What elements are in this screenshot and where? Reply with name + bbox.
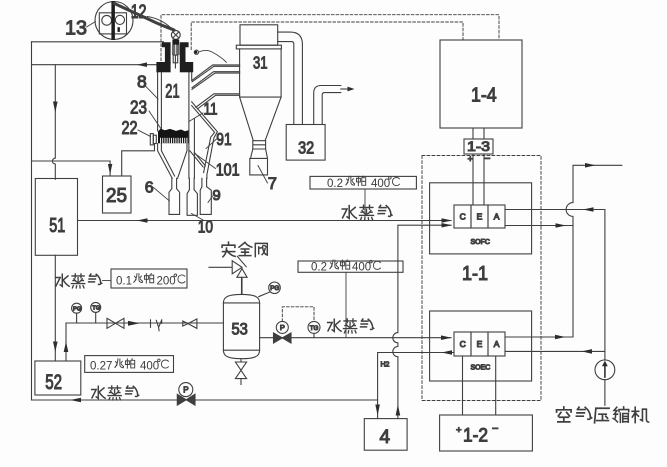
steam generator vessel 53 body [223, 294, 259, 358]
text air compressor [557, 407, 649, 423]
check valve before vessel 53 [183, 319, 197, 329]
svg-text:7: 7 [268, 175, 277, 193]
cyclone cone [240, 97, 282, 141]
wire 52 up to steam line y323 [66, 323, 223, 361]
svg-text:10: 10 [198, 216, 214, 236]
bus 1-3 to SOFC E [473, 154, 484, 205]
box 52 [35, 361, 81, 395]
SOEC cell E [471, 332, 488, 356]
svg-text:PG: PG [73, 306, 82, 312]
controller box 1-4 [440, 40, 522, 128]
gasifier left wall below bed [158, 144, 175, 179]
label 22 pointer [138, 130, 151, 137]
svg-text:53: 53 [232, 320, 248, 338]
burner nozzle 22 [150, 134, 153, 145]
svg-text:400: 400 [140, 361, 159, 373]
gauge P above control valve [276, 321, 288, 333]
power box 1-2 [440, 415, 533, 451]
svg-text:23: 23 [130, 97, 147, 118]
svg-text:H2: H2 [381, 362, 390, 369]
arrow right into SOFC C [442, 218, 453, 223]
bed comb texture [161, 138, 187, 143]
svg-text:25: 25 [106, 185, 127, 207]
wire syngas line y64.7 [32, 64, 158, 66]
svg-text:400: 400 [371, 178, 390, 190]
arrow right on top exhaust [585, 163, 596, 168]
svg-text:TG: TG [310, 325, 319, 332]
annular funnel 91 outer wall [192, 102, 218, 179]
svg-text:11: 11 [204, 101, 218, 119]
arrow left into SOFC A [583, 207, 594, 212]
label 23 pointer [149, 111, 162, 130]
exhaust arrow [341, 88, 348, 90]
cyclone 31 top box [240, 25, 278, 45]
arrow down into box 25 [108, 164, 112, 175]
lower duct to cyclone [196, 94, 240, 109]
wire H2 from SOEC C to storage 4 [378, 353, 454, 419]
gauge PG on 53 top [269, 282, 281, 294]
cyclone body [240, 49, 282, 97]
wire O2 riser with hop [566, 165, 622, 337]
char bottle 10 [187, 178, 197, 215]
arrow left toward 51 [137, 218, 148, 223]
flow arrow right after valve V1 [128, 321, 140, 326]
svg-text:8: 8 [137, 71, 147, 91]
svg-text:1-3: 1-3 [467, 138, 490, 154]
thick feed pipe from 13 to valve 12 [115, 4, 174, 30]
injector inside neck [172, 45, 180, 55]
cyclone flange [236, 45, 281, 49]
text 0.27MPa 400C [90, 359, 168, 373]
SOEC cell C [454, 332, 471, 356]
svg-text:21: 21 [165, 82, 179, 103]
arrow right on SOEC A out [555, 335, 566, 340]
wire steam feed top to gasifier [32, 41, 164, 43]
arrow on syngas line pointing left [137, 62, 147, 67]
svg-text:0.27: 0.27 [90, 361, 112, 373]
dashed control line to valve 12 [161, 15, 499, 61]
svg-text:PG: PG [270, 285, 279, 292]
igniter fitting [194, 50, 198, 54]
rotary feeder 13 outer circle [95, 2, 133, 40]
wire SOEC A out [505, 336, 573, 338]
SOFC cell E [471, 205, 488, 228]
svg-text:4: 4 [380, 427, 391, 448]
svg-text:P: P [183, 386, 188, 395]
pipe cyclone to box 32 [278, 32, 303, 124]
arrow down into box 4 [375, 405, 380, 416]
control valve on 53 outlet [274, 333, 292, 343]
svg-text:101: 101 [216, 159, 240, 179]
exhaust pipe from 32 [314, 86, 341, 125]
label 6 pointer [154, 188, 170, 202]
svg-text:−: − [492, 423, 498, 435]
char bottle 9 [200, 178, 211, 214]
air compressor symbol [595, 360, 615, 380]
box 32 [286, 125, 325, 161]
svg-text:C: C [460, 212, 466, 222]
label 8 pointer [145, 85, 159, 99]
gasifier right wall [189, 72, 192, 178]
wire main syngas/steam line to SOFC [78, 220, 452, 222]
box 25 [103, 176, 132, 213]
SOFC cell A [488, 205, 505, 228]
label box 0.1MPa 200C [111, 269, 187, 288]
igniter sensing tube [199, 50, 227, 62]
arrow left on H2 line [442, 350, 453, 355]
char bottle 6 [169, 178, 180, 214]
svg-text:0.1: 0.1 [116, 276, 132, 288]
gasifier neck right black bar [180, 42, 189, 64]
svg-text:1-1: 1-1 [462, 263, 488, 285]
svg-text:22: 22 [122, 117, 138, 138]
text safety valve [222, 242, 267, 257]
feeder 13 feed bar [111, 1, 115, 40]
svg-text:31: 31 [253, 53, 268, 73]
arrow down into 52 [53, 342, 58, 353]
SOFC cell C [454, 205, 471, 228]
gasifier left hopper right side [178, 144, 187, 179]
drain valve under 53 [235, 359, 246, 385]
dashed control link P to TG [282, 307, 314, 322]
svg-text:200: 200 [157, 276, 176, 288]
box 51 [35, 179, 77, 256]
fluidized bed black band 23 [158, 129, 189, 144]
arrow left into SOEC A [582, 349, 593, 354]
valve V1 on steam line [107, 318, 124, 328]
wire SOEC air in branch [505, 350, 605, 352]
svg-text:E: E [477, 339, 483, 349]
wire 51 to 52 [54, 255, 56, 361]
text steam label bottom [92, 386, 139, 400]
label box 0.27MPa 400C [85, 356, 174, 373]
svg-text:1-2: 1-2 [463, 425, 488, 447]
gauge PG on steam line [72, 303, 82, 313]
arrow up from box 4 [396, 405, 401, 416]
converter box 1-3 [464, 139, 493, 154]
svg-text:SOEC: SOEC [471, 365, 491, 372]
svg-text:51: 51 [49, 215, 65, 237]
label box 0.2MPa 400C upper [310, 176, 416, 189]
svg-text:0.2: 0.2 [311, 261, 327, 273]
dashed control line to igniter [191, 22, 463, 50]
SOEC stack box [430, 311, 532, 381]
label box 0.2MPa 400C lower [298, 261, 403, 272]
label 10 pointer [192, 214, 205, 221]
svg-text:A: A [494, 212, 500, 222]
svg-text:+: + [456, 425, 462, 436]
safety valve SV on 53 [209, 256, 247, 294]
middle tube outer line [193, 119, 195, 178]
feeder 13 right rotor [115, 15, 124, 24]
svg-text:SOFC: SOFC [471, 239, 490, 246]
dashed hot box 1-1 [422, 156, 541, 401]
svg-text:TG: TG [92, 306, 101, 312]
wire H2 riser from box 4 to SOFC C with hops [393, 225, 451, 418]
gasifier flange wing left [156, 62, 170, 72]
svg-text:52: 52 [45, 371, 62, 394]
svg-text:E: E [477, 212, 483, 222]
label 7 pointer [258, 166, 268, 184]
wire branch to box 25 [32, 161, 111, 176]
gauge TG on 53 outlet [308, 321, 320, 333]
wire bottom steam line [32, 399, 378, 401]
wire SOFC air in from compressor [505, 210, 605, 360]
arrow right into SOFC C lower [442, 223, 453, 228]
gasifier 21 left wall [158, 72, 162, 131]
text 0.2MPa 400C lower [311, 260, 380, 273]
label 12 pointer [147, 17, 171, 28]
cyclone discharge tube 7 [250, 149, 268, 175]
svg-text:P: P [280, 323, 285, 332]
svg-text:C: C [460, 339, 466, 349]
svg-text:9: 9 [212, 187, 220, 204]
wire syngas drop x55.3 with hop over y161 [52, 65, 55, 180]
text 0.1MPa 200C [116, 273, 185, 287]
wire box 25 to nozzle 22 [122, 145, 155, 177]
svg-text:1-4: 1-4 [471, 84, 497, 107]
svg-text:400: 400 [352, 261, 371, 273]
arrow up from 52 [64, 342, 69, 353]
cyclone neck [253, 141, 266, 149]
svg-text:13: 13 [65, 18, 87, 40]
svg-text:91: 91 [216, 129, 231, 149]
svg-text:A: A [494, 339, 500, 349]
outlet duct to cyclone upper [192, 65, 240, 89]
bus SOEC to 1-2 [463, 356, 496, 415]
text 0.2MPa 400C upper [327, 176, 399, 190]
bus 1-4 to 1-3 [473, 128, 484, 139]
label 9 pointer [208, 196, 213, 203]
valve with gauge P on bottom steam line [177, 394, 195, 405]
box 4 hydrogen storage [364, 419, 407, 451]
feeder 13 left rotor [102, 15, 112, 25]
label 11 pointer [189, 113, 203, 122]
arrow right on SOFC A out [556, 223, 567, 228]
arrow down on x55.3 [53, 102, 58, 113]
label 13 pointer [87, 22, 96, 28]
gauge TG on steam line [91, 302, 101, 312]
SOEC cell A [488, 332, 505, 356]
svg-text:6: 6 [145, 180, 154, 197]
arrow right into SOEC C [441, 335, 452, 340]
label 101 pointer [196, 154, 216, 169]
wire steam trunk left vertical [31, 42, 33, 400]
gasifier neck left black bar [162, 42, 171, 64]
feed valve 12 [171, 31, 180, 40]
svg-text:32: 32 [298, 138, 314, 158]
wire SOFC A exhaust out [505, 225, 573, 227]
SOFC stack box [430, 183, 532, 254]
feeder 13 housing [99, 13, 126, 34]
svg-text:0.2: 0.2 [327, 178, 343, 190]
inner cone 101 walls [190, 151, 206, 167]
text steam label near 51 [56, 274, 102, 288]
gasifier flange wing right [180, 62, 193, 72]
arrow left on bottom steam line [70, 398, 81, 403]
text steam label to SOEC [328, 319, 374, 333]
text steam label to SOFC [342, 205, 392, 220]
check symbol on steam line [151, 320, 162, 331]
svg-text:−: − [484, 153, 490, 165]
label 91 pointer [206, 139, 217, 149]
vessel 53 top pipe [241, 277, 243, 294]
wire steam from 53 to SOEC C [260, 337, 451, 339]
svg-text:12: 12 [131, 2, 147, 23]
valve 12 stem [172, 39, 179, 45]
feeder 13 small block [118, 27, 120, 32]
